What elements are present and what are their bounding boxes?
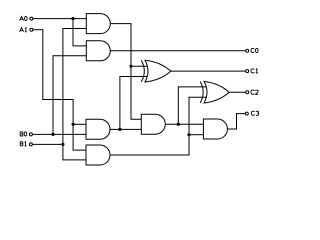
wire B0 branch up to G2 input 2 [53,56,86,135]
wire B1 branch up to G1 input 2 [63,29,86,145]
wire G1 output down to X1 input 1 and G5 input 1 [110,24,141,120]
junction G1 output split [129,65,132,68]
junction G5 output split [177,123,180,126]
and-gate G1 (A0·B1) [86,14,110,34]
junction A0 split [71,17,74,20]
wire G5 output to G6 input 1 [165,123,203,125]
output terminal C2 [246,90,259,94]
input terminal B0 [20,132,32,136]
wire G3 output branch up to X1 input 2 [120,77,147,130]
xor-gate X1 (sum C1) [141,60,171,82]
wire B1 from terminal [33,143,63,145]
wire A0 to G1 input 1 [33,18,86,20]
wire B0 to G3 input 2 [33,133,87,135]
wire A1 to G4 input 1 [33,30,86,150]
wire G4 output up to X2 input 2 [110,97,206,155]
input terminal A1 [20,28,33,32]
junction B0 split [51,133,54,136]
wire G5 output branch up to X2 input 1 [178,87,207,124]
input terminal B1 [20,142,32,146]
wire branch into G6 input 2 [189,134,203,136]
wire X1 output to C1 [171,70,246,72]
junction A1 split [72,123,75,126]
and-gate G4 (A1·B1) [86,145,110,165]
output terminal C0 [246,48,258,52]
wire X2 output to C2 [229,91,246,93]
output terminal C3 [245,111,258,115]
junction G4 output split [187,133,190,136]
wire A0 branch down to G2 input 1 [73,19,86,46]
input terminal A0 [20,16,33,20]
and-gate G6 (C3 carry) [203,119,227,139]
wire G3 output to G5 input 2 [110,128,141,130]
and-gate G3 (A1·B0) [86,119,110,139]
wire G2 output to C0 [110,50,245,52]
wire B1 branch down to G4 input 2 [63,144,86,160]
output terminal C1 [246,69,258,73]
wire A1 branch to G3 input 1 [73,123,86,125]
junction B1 split [61,143,64,146]
xor-gate X2 (sum C2) [200,82,229,104]
wire G6 output to C3 [227,114,245,129]
junction G3 output split [118,128,121,131]
and-gate G2 (A0·B0) [86,41,110,61]
wire branch into X1 input 1 [131,65,148,67]
and-gate G5 (carry A0B1·A1B0) [141,114,165,134]
